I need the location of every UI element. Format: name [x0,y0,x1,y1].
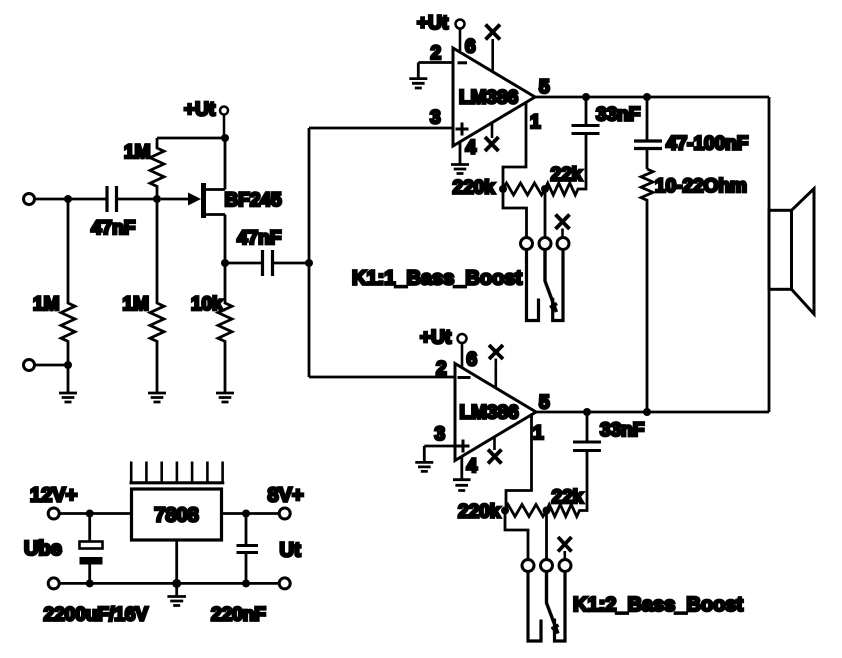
ground input [59,365,77,402]
X mark U1 top (n.c.) [486,25,501,72]
X mark K1:1 (n.c.) [556,215,570,238]
svg-text:LM386: LM386 [460,403,519,424]
node bus junction [305,259,313,267]
wire lower output [536,411,769,414]
svg-text:1M: 1M [123,294,149,315]
svg-text:5: 5 [539,77,550,98]
node pot left (upper) [499,185,507,193]
relay contact circles K1:1 [521,238,570,250]
wire 7808 gnd pin [175,540,178,583]
svg-text:K1:2_Bass_Boost: K1:2_Bass_Boost [573,594,743,616]
wire 12V input [59,512,131,515]
resistor 22k (lower) [547,452,588,517]
wire tap down (lower) [545,511,548,560]
switch K1:2 lever [547,572,559,634]
capacitor 47-100nF [634,97,662,169]
ground R3 [148,393,166,402]
svg-text:7808: 7808 [154,505,199,527]
X mark U2 bottom (n.c.) [488,438,502,464]
svg-text:1M: 1M [33,294,59,315]
terminal +Ut (jfet) [220,107,228,139]
node C6 top [86,510,94,518]
wire U2 pin3 [424,445,455,448]
node output branch (upper) [643,93,651,101]
U2 plus sign [457,440,470,453]
switch K1:1 left contact [527,250,539,321]
wire bottom terminal to node [35,364,69,367]
terminal +Ut U1 pin6 [456,20,465,53]
capacitor 33nF (lower) [573,412,601,451]
wire U1 output pin5 [535,96,769,99]
capacitor C7 220nF [237,514,259,584]
svg-text:2: 2 [436,359,447,380]
resistor R2 1M (gate to +Ut) [150,138,164,199]
switch K1:2 left contact [528,572,541,641]
node drain supply junction [221,134,229,142]
svg-text:4: 4 [467,456,478,477]
wire U1 pin1 to pot [503,102,526,189]
terminal +Ut U2 pin6 [458,334,467,368]
input terminal bottom [24,360,35,371]
svg-text:3: 3 [430,108,441,129]
svg-text:33nF: 33nF [600,420,644,441]
wire input bus [309,128,455,377]
terminal gnd right [279,578,290,589]
svg-text:47-100nF: 47-100nF [666,134,748,155]
node pot wiper (upper) [541,185,549,193]
svg-text:Ut: Ut [280,540,301,562]
svg-text:220k: 220k [453,178,496,199]
terminal 8V+ [279,508,290,519]
ground U1 pin2 [409,63,427,89]
capacitor 33nF (upper) [572,97,600,134]
switch K1:1 lever [545,250,557,313]
node pot left (lower) [501,507,509,515]
speaker [769,189,814,314]
X mark K1:2 (n.c.) [558,537,572,560]
svg-text:10-22Ohm: 10-22Ohm [655,176,747,197]
resistor 220k (lower) [505,505,547,517]
svg-text:LM386: LM386 [459,88,518,109]
svg-text:+Ut: +Ut [417,13,449,34]
node zobel bottom [643,408,651,416]
X mark U2 top (n.c.) [489,345,503,388]
U2 minus sign [458,376,471,379]
svg-text:BF245: BF245 [225,190,282,211]
node input junction [64,195,72,203]
node C7 top [242,510,250,518]
node C7 bottom [242,579,250,587]
wire 8V output [222,512,280,515]
wire pot left down (upper) [503,189,527,238]
resistor R1 1M (input shunt) [61,199,75,365]
capacitor C1 47nF [107,186,117,212]
svg-text:1M: 1M [124,142,150,163]
capacitor C2 47nF (coupling) [225,250,309,276]
regulator 7808 box [132,489,222,540]
wire right bus [768,97,771,412]
resistor 220k (upper) [503,183,545,195]
resistor 22k (upper) [545,135,586,195]
wire tap down (upper) [544,189,547,238]
node C6 bottom [86,579,94,587]
svg-text:47nF: 47nF [237,228,281,249]
wire pot left down (lower) [505,511,528,560]
svg-text:2: 2 [431,43,442,64]
node output 33nF (upper) [582,93,590,101]
ground 7808 [167,583,186,605]
svg-text:33nF: 33nF [596,105,640,126]
ground U2 pin4 [453,457,471,491]
resistor R3 1M (gate to ground) [150,199,164,392]
wire U2 pin1 to pot [506,415,532,511]
wire U1 pin2 [418,61,453,64]
svg-text:5: 5 [539,393,550,414]
wire R2 top to drain column [157,137,225,140]
switch K1:2 right contact [555,572,566,641]
svg-text:220nF: 220nF [211,605,266,626]
svg-text:K1:1_Bass_Boost: K1:1_Bass_Boost [352,268,522,290]
svg-text:+Ut: +Ut [184,100,216,121]
ground R4 [216,393,234,402]
node regulator gnd [172,579,181,588]
wire ground rail [59,582,279,585]
U1 plus sign [456,123,469,136]
wire C1 to gate node [118,198,157,201]
svg-text:1: 1 [530,112,541,133]
transistor Q1 BF245 [161,138,225,263]
heatsink [130,462,225,483]
node pot wiper (lower) [543,507,551,515]
svg-text:6: 6 [467,350,478,371]
X mark U1 bottom (n.c.) [485,122,499,151]
op-amp U2 LM386 [455,364,536,461]
node output 33nF (lower) [583,408,591,416]
svg-text:22k: 22k [551,165,583,186]
svg-text:220k: 220k [458,502,501,523]
input terminal top [24,194,35,205]
relay contact circles K1:2 [522,560,571,572]
svg-text:8V+: 8V+ [268,485,304,507]
resistor R4 10k [218,263,232,392]
svg-text:+Ut: +Ut [420,328,452,349]
svg-text:3: 3 [435,424,446,445]
terminal gnd left [48,578,59,589]
switch K1:1 right contact [553,250,563,321]
op-amp U1 LM386 [453,48,535,146]
U1 minus sign [458,61,468,64]
svg-text:2200uF/16V: 2200uF/16V [44,605,149,626]
node source junction [221,259,229,267]
svg-text:1: 1 [533,423,544,444]
resistor 10-22Ohm [641,169,653,412]
svg-text:47nF: 47nF [91,218,135,239]
ground U2 pin3 [415,446,433,471]
svg-text:10k: 10k [191,294,223,315]
terminal 12V+ [48,508,59,519]
node bottom junction [64,361,72,369]
svg-text:4: 4 [466,138,477,159]
node gate [153,195,161,203]
svg-text:6: 6 [465,37,476,58]
svg-text:22k: 22k [552,487,584,508]
capacitor C6 2200uF electrolytic [80,514,103,584]
ground U1 pin4 [451,142,469,174]
wire input to C1 [35,198,106,201]
svg-text:Ube: Ube [24,538,62,560]
svg-text:12V+: 12V+ [30,485,77,507]
